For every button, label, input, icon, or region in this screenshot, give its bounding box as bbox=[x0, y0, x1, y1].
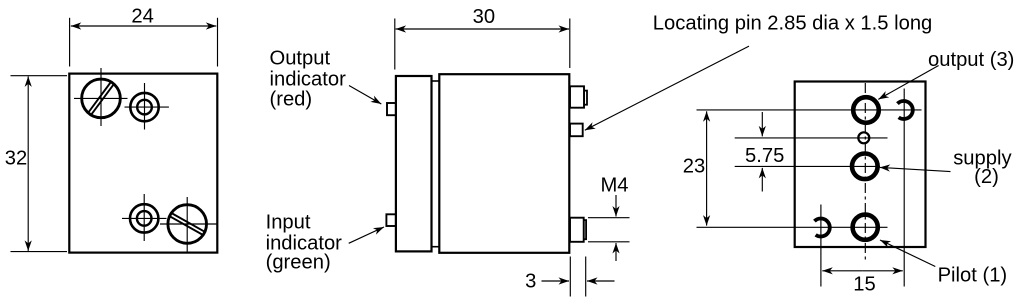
leader arrow to input indicator tab bbox=[349, 227, 384, 243]
dim 30 arrow line bbox=[396, 28, 569, 30]
svg-text:(red): (red) bbox=[270, 89, 313, 111]
dim 24 extension lines bbox=[70, 18, 218, 67]
centerline bottom C hole / 15 dim left extension bbox=[820, 205, 822, 287]
hole top (double circle) crosshair bbox=[125, 83, 169, 130]
dim 23 arrow line bbox=[706, 111, 708, 225]
svg-text:3: 3 bbox=[525, 271, 536, 293]
screw bottom-right crosshair bbox=[160, 197, 218, 253]
locating pin hole bbox=[858, 132, 869, 143]
dim M4 down arrow bbox=[615, 195, 617, 217]
dim 3 right arrow bbox=[587, 280, 615, 282]
gasket strip between flange and body bbox=[432, 81, 439, 247]
svg-text:30: 30 bbox=[473, 6, 495, 28]
side view body bbox=[439, 74, 569, 253]
svg-text:indicator: indicator bbox=[270, 68, 347, 90]
hole bottom inner circle bbox=[137, 211, 152, 226]
svg-text:Input: Input bbox=[266, 212, 311, 234]
hole top inner circle bbox=[137, 100, 152, 115]
locating pin bbox=[570, 124, 583, 137]
svg-text:output (3): output (3) bbox=[928, 49, 1014, 71]
screw top-left crosshair bbox=[74, 68, 128, 126]
top C hole bbox=[897, 101, 912, 119]
output hole (3) bbox=[853, 97, 879, 123]
front view body outline bbox=[69, 74, 217, 253]
svg-text:24: 24 bbox=[131, 5, 153, 27]
svg-text:(green): (green) bbox=[266, 251, 331, 273]
svg-text:(2): (2) bbox=[974, 166, 999, 188]
M4 stud step 2 bbox=[584, 220, 586, 239]
pilot hole (1) bbox=[853, 215, 878, 240]
bottom C hole bbox=[814, 219, 829, 237]
screw bottom-right slot bbox=[169, 213, 206, 236]
hole bottom (double circle) crosshair bbox=[122, 194, 167, 241]
dim 5.75 up arrow bbox=[761, 168, 763, 192]
svg-text:23: 23 bbox=[683, 156, 705, 178]
screw top-left circle bbox=[82, 79, 121, 118]
dim 15 arrow line bbox=[822, 270, 903, 272]
side view flange bbox=[396, 76, 432, 251]
hole bottom outer circle bbox=[130, 204, 158, 232]
output row centerline bbox=[697, 109, 922, 111]
top connector step 2 bbox=[584, 91, 587, 105]
leader arrow to locating pin bbox=[585, 46, 749, 130]
screw bottom-right circle bbox=[168, 205, 207, 244]
leader arrow to output hole bbox=[878, 66, 938, 100]
dim 24 arrow line bbox=[71, 25, 217, 27]
screw top-left slot bbox=[88, 81, 115, 115]
leader arrow to supply hole bbox=[880, 167, 951, 171]
input indicator tab (bottom left) bbox=[386, 214, 396, 226]
dim 5.75 down arrow bbox=[761, 112, 763, 136]
top connector step 1 bbox=[570, 86, 584, 107]
leader arrow to pilot hole bbox=[880, 240, 935, 267]
svg-text:32: 32 bbox=[5, 148, 27, 170]
supply row centerline bbox=[735, 165, 880, 167]
pilot row centerline bbox=[697, 226, 888, 228]
leader arrow to output indicator tab bbox=[349, 86, 381, 105]
svg-text:15: 15 bbox=[853, 274, 875, 296]
hole top outer circle bbox=[130, 93, 158, 121]
dim M4 lines bbox=[588, 218, 630, 242]
dim 32 extension lines bbox=[11, 76, 68, 252]
svg-text:5.75: 5.75 bbox=[745, 145, 784, 167]
locating pin hole row centerline bbox=[735, 137, 888, 139]
centerline through top C hole / 15 dim right extension bbox=[903, 89, 905, 287]
vertical centerline (dashed) bbox=[864, 83, 866, 260]
svg-text:Pilot (1): Pilot (1) bbox=[938, 265, 1008, 287]
M4 stud step 1 bbox=[570, 218, 584, 242]
dim 32 arrow line bbox=[27, 76, 29, 251]
dim 3 left arrow bbox=[542, 280, 570, 282]
svg-text:M4: M4 bbox=[600, 174, 628, 196]
svg-text:Locating pin 2.85 dia x 1.5 lo: Locating pin 2.85 dia x 1.5 long bbox=[653, 12, 932, 34]
svg-text:Output: Output bbox=[270, 48, 331, 70]
dim 30 extension lines bbox=[395, 19, 570, 70]
dim 3 extension lines bbox=[570, 257, 585, 297]
base view outline bbox=[795, 82, 926, 248]
dim M4 up arrow bbox=[615, 243, 617, 261]
output indicator tab (top left) bbox=[387, 103, 396, 115]
supply hole (2) bbox=[852, 154, 878, 180]
